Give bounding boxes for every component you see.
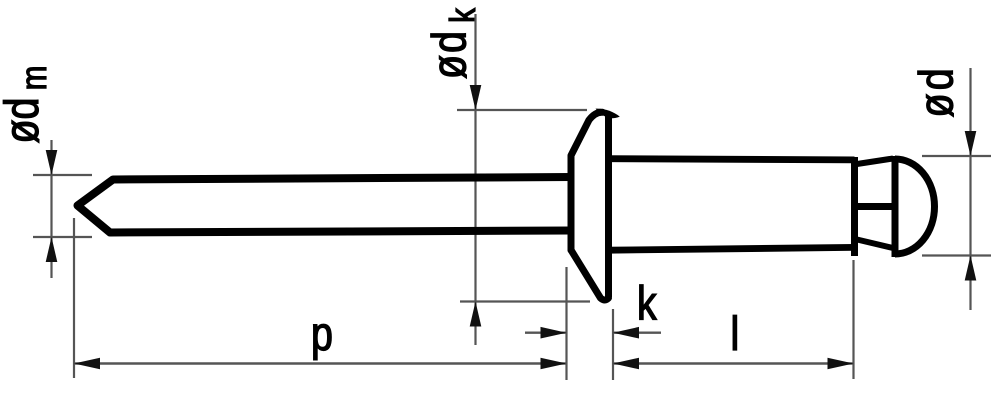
neck bottom slant xyxy=(857,240,893,249)
flange left and top outline xyxy=(571,112,603,250)
dim line ø d_k xyxy=(474,14,476,345)
dim line l xyxy=(613,362,854,365)
mandrel stem outline xyxy=(78,177,573,233)
extension line flange right xyxy=(612,309,614,380)
label l xyxy=(733,315,736,350)
arrow k pointing left xyxy=(613,327,639,339)
label ø d_m xyxy=(3,68,46,143)
rivet body top line xyxy=(609,159,855,160)
mandrel head back face xyxy=(892,156,899,257)
arrow ø d_m up xyxy=(46,237,58,262)
rivet body bottom line xyxy=(609,247,855,250)
tick ø d_m top xyxy=(33,174,92,176)
tick ø d_k top xyxy=(457,109,587,111)
arrow p right xyxy=(541,358,567,370)
label ø d xyxy=(918,71,954,117)
extension line body end xyxy=(852,260,854,379)
extension line mandrel tip xyxy=(73,218,75,378)
mandrel head dome xyxy=(895,159,935,254)
mandrel stem bar at break xyxy=(851,203,898,210)
arrow l right xyxy=(828,358,854,370)
arrow ø d_m down xyxy=(46,150,58,175)
arrow ø d up xyxy=(965,256,977,281)
label ø d_k xyxy=(431,8,475,78)
dim line ø d xyxy=(969,68,971,310)
arrow p left xyxy=(74,358,100,370)
tick ø d bottom xyxy=(922,254,991,256)
neck top slant xyxy=(857,159,893,165)
k arrow right tail xyxy=(613,332,661,334)
tick ø d_k bottom xyxy=(460,300,590,302)
extension line flange left xyxy=(565,267,567,380)
dim line ø d_m xyxy=(50,140,52,278)
tick ø d top xyxy=(922,155,991,157)
dim line p xyxy=(74,362,567,365)
label k xyxy=(640,285,657,320)
arrow ø d_k up xyxy=(470,302,482,327)
flange bottom outline xyxy=(571,250,609,300)
tick ø d_m bottom xyxy=(33,236,92,238)
label p xyxy=(314,324,332,360)
k arrow left tail xyxy=(525,332,567,334)
flange horn tip xyxy=(596,109,620,119)
body end face line xyxy=(851,157,858,256)
arrow ø d down xyxy=(965,131,977,156)
arrow ø d_k down xyxy=(470,85,482,110)
flange right face xyxy=(605,113,612,298)
arrow k pointing right xyxy=(541,327,567,339)
arrow l left xyxy=(613,358,639,370)
